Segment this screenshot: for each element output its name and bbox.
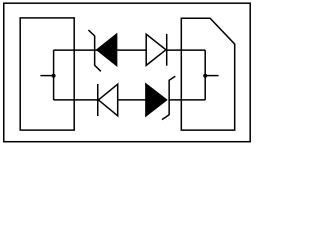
wire bottom rail right segment [169, 99, 205, 101]
junction dot left [52, 74, 56, 78]
wire top rail right segment [167, 49, 206, 51]
diode D2 cathode bar [166, 34, 168, 66]
zener diode D1 cathode bar [88, 30, 100, 71]
junction dot right [203, 74, 207, 78]
wire bottom rail middle segment [118, 99, 146, 101]
diode D3 cathode bar [97, 84, 99, 116]
sheet border frame [4, 3, 250, 142]
wire left stub [40, 75, 53, 77]
wire top rail middle segment [117, 49, 147, 51]
zener diode D4 cathode bar [162, 76, 175, 119]
diode D3 triangle (open, pointing left) [98, 84, 117, 116]
wire top rail left segment [54, 49, 98, 51]
wire right vertical [204, 50, 206, 100]
diode D2 triangle (open, pointing right) [146, 34, 166, 65]
zener diode D1 triangle (filled, pointing left) [97, 34, 117, 65]
wire left vertical [53, 50, 55, 100]
wire right stub [205, 75, 218, 77]
wire bottom rail left segment [54, 99, 98, 101]
zener diode D4 triangle (filled, pointing right) [146, 84, 167, 116]
connector block J2 (right, chamfered) [181, 18, 234, 130]
connector block J1 (left) [20, 18, 74, 130]
